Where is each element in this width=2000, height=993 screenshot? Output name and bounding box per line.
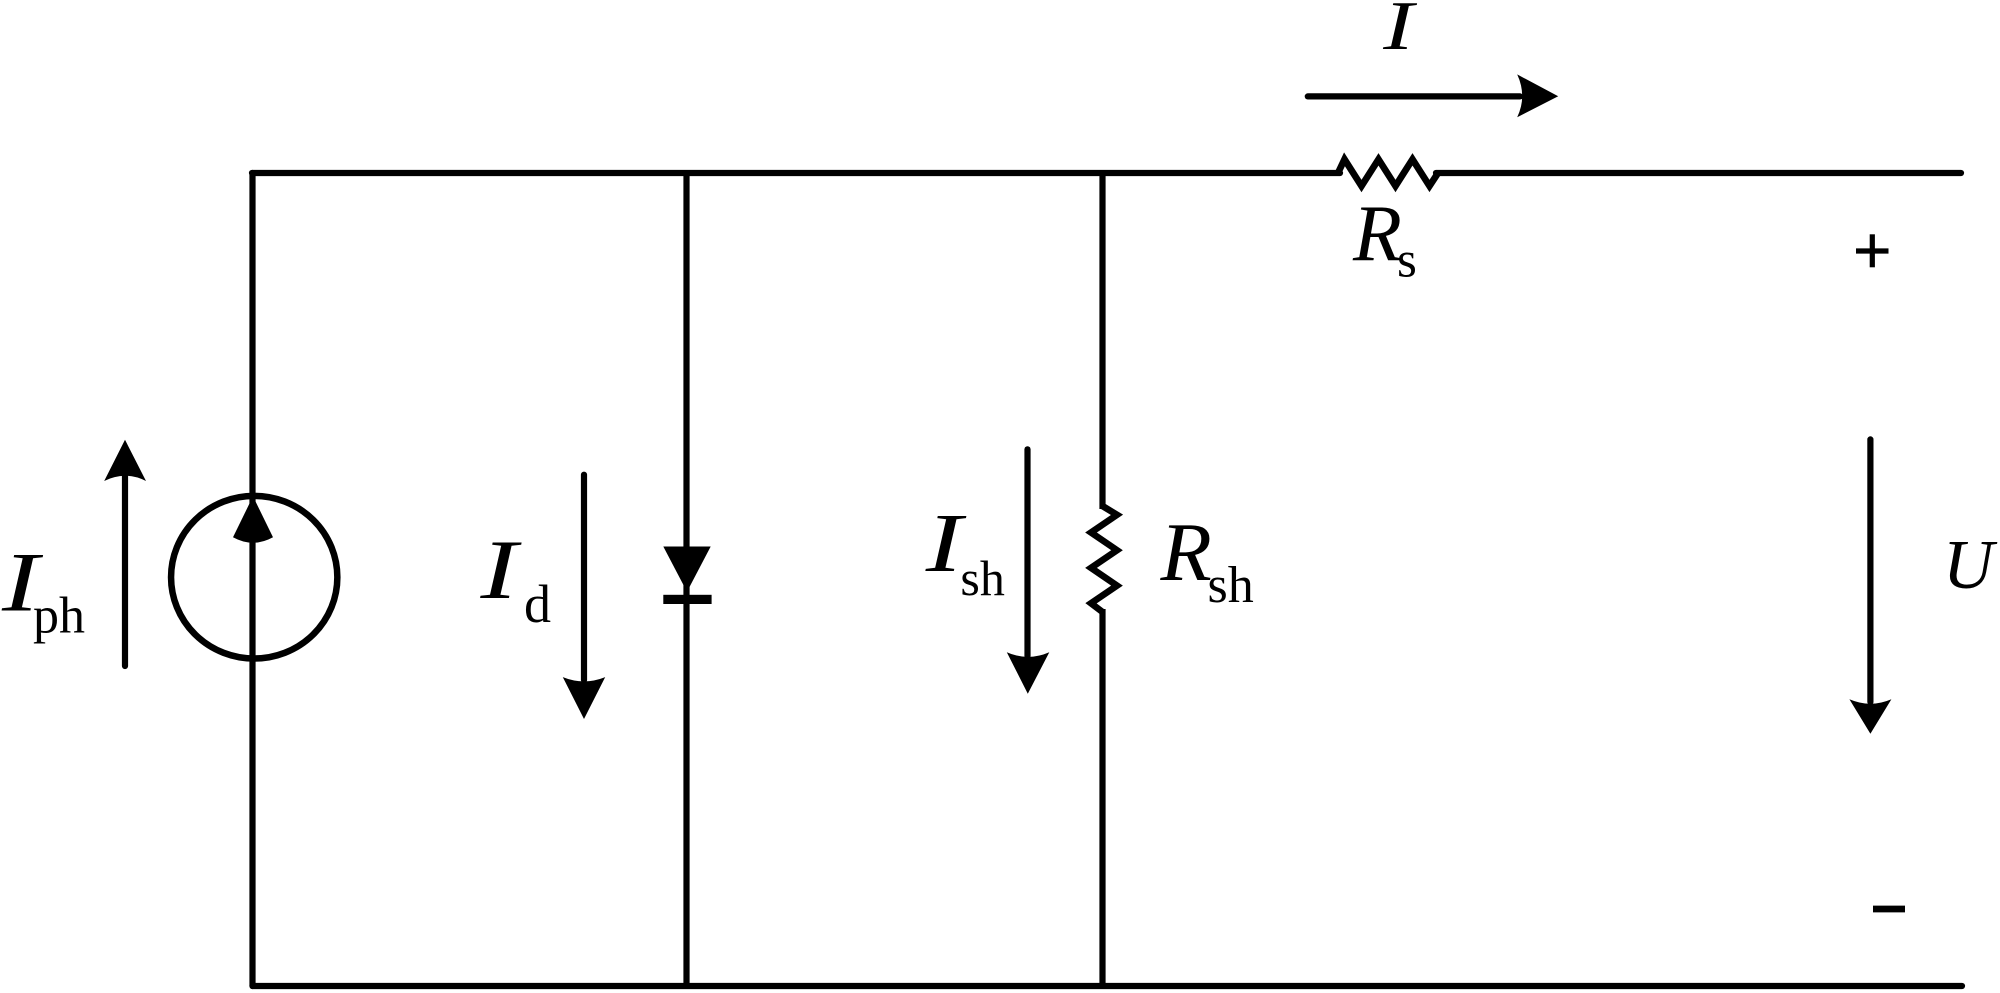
current arrow Ish (down): [1007, 449, 1050, 694]
wire bottom rail: [253, 983, 1963, 989]
current arrow Iph (up): [104, 440, 146, 666]
label Iph: [1, 535, 85, 644]
current arrow I (output, right): [1308, 74, 1558, 117]
wire Rsh branch lower segment: [1099, 609, 1105, 986]
wire top rail: resistor Rs to + output terminal: [1436, 170, 1961, 176]
svg-text:sh: sh: [960, 550, 1004, 606]
svg-text:U: U: [1943, 527, 1998, 604]
label Rs: [1352, 190, 1417, 289]
current source Iph circle: [171, 496, 337, 659]
svg-text:sh: sh: [1208, 557, 1254, 614]
current arrow Id (down): [563, 475, 605, 719]
minus terminal mark: [1873, 906, 1905, 913]
svg-text:I: I: [1382, 0, 1418, 65]
label Ish: [925, 497, 1005, 606]
voltage arrow U (down): [1849, 439, 1891, 733]
svg-text:R: R: [1352, 190, 1402, 278]
svg-text:d: d: [524, 574, 551, 634]
svg-text:R: R: [1160, 506, 1212, 599]
label Rsh: [1160, 506, 1254, 614]
svg-text:I: I: [479, 523, 522, 617]
svg-text:ph: ph: [33, 588, 85, 645]
plus terminal mark: [1856, 234, 1889, 267]
diode D anode triangle: [663, 547, 710, 592]
wire left rail (through current source): [249, 173, 255, 986]
label Id: [479, 523, 551, 634]
wire Rsh branch upper segment: [1099, 173, 1105, 509]
current source internal up arrowhead: [233, 496, 273, 543]
wire diode branch: [683, 173, 689, 986]
resistor Rsh (shunt) zigzag: [1091, 506, 1117, 612]
wire top rail: node A (top-left) to resistor Rs: [252, 170, 1340, 176]
svg-text:s: s: [1397, 233, 1417, 289]
diode D cathode bar: [663, 595, 711, 604]
resistor Rs (series) zigzag: [1338, 159, 1438, 186]
